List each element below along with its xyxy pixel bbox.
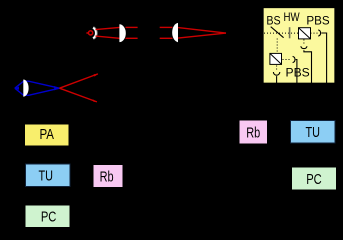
lens L3 (plano-convex, flat left) [23, 80, 28, 97]
fiber coupler 1 (arc) [318, 30, 320, 36]
half-wave plate HW [289, 27, 291, 38]
svg-text:HW: HW [284, 10, 301, 24]
box TU right [291, 121, 336, 144]
box Rb left [93, 165, 123, 188]
blue beam lower (fiber output through lens L3) [15, 88, 60, 95]
main dotted beam line [264, 32, 299, 34]
focused ray upper (L2 to focus) [178, 28, 226, 33]
fiber coupler 4 (arc opening up) [273, 72, 279, 75]
svg-text:PA: PA [39, 127, 54, 143]
svg-text:TU: TU [305, 125, 320, 141]
PBS cube 1 [299, 28, 311, 39]
fiber coupler 3 (arc opening up) [301, 46, 307, 48]
laser diode aperture ring [89, 31, 93, 35]
svg-text:Rb: Rb [100, 169, 114, 185]
red ray up-right from focus [60, 74, 98, 88]
box TU left [26, 164, 71, 187]
collimated ray upper segment 2 [160, 26, 173, 28]
collimated ray upper segment 1 [126, 26, 138, 28]
diverging ray upper (diode to lens L1) [96, 27, 120, 29]
blue arrowhead left [15, 87, 19, 90]
fiber 1 [321, 33, 326, 83]
red ray down-right from focus [60, 88, 97, 102]
dotted right of PBS2 [283, 59, 290, 61]
diode micro-lens gray outline [93, 27, 96, 38]
yellow optics panel [263, 8, 335, 84]
arrowhead down-right ray [93, 99, 98, 102]
blue arrowhead right [54, 86, 59, 90]
fiber 3 [304, 50, 312, 83]
PBS cube 2 [270, 53, 282, 64]
svg-text:Rb: Rb [246, 125, 260, 141]
lens L1 (plano-convex, flat left) [119, 24, 125, 42]
collimated ray lower segment 1 [126, 37, 138, 39]
fiber 4 [276, 76, 278, 83]
svg-text:BS: BS [266, 14, 280, 28]
lens L2 (plano-convex, flat right) [172, 23, 178, 42]
diverging ray lower (diode to lens L1) [96, 36, 120, 38]
fiber 2 [296, 60, 297, 84]
focused ray lower (L2 to focus) [178, 33, 226, 38]
svg-text:PBS: PBS [306, 13, 329, 27]
dotted below PBS2 [276, 66, 278, 71]
svg-text:TU: TU [38, 169, 53, 185]
svg-text:PC: PC [41, 210, 57, 226]
dotted below PBS1 [303, 40, 305, 45]
fiber coupler 2 (arc) [293, 56, 295, 62]
arrowhead up-right ray [94, 74, 99, 77]
diode left nub [86, 32, 88, 34]
box PA [25, 124, 70, 146]
box PC left [25, 205, 70, 228]
collimated ray lower segment 2 [160, 37, 173, 39]
svg-text:PC: PC [306, 172, 322, 188]
box PC right [292, 167, 337, 190]
box Rb right [239, 120, 268, 144]
blue beam upper (fiber output through lens L3) [15, 81, 60, 88]
vertical dotted below BS [276, 39, 278, 54]
dotted beam after PBS1 [311, 32, 318, 34]
beamsplitter BS plate [271, 27, 284, 38]
diode micro-lens (thin crescent) [93, 28, 96, 39]
svg-text:PBS: PBS [286, 65, 310, 79]
